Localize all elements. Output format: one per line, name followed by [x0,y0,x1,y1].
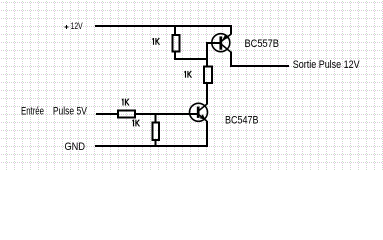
svg-text:BC557B: BC557B [245,38,280,50]
transistor Q1 base bar [219,36,222,49]
resistor R2 body [204,67,212,84]
transistor Q1 emitter diagonal [221,34,231,41]
transistor Q2 emitter arrow (NPN, points out) [200,114,206,120]
wire input Entree [96,113,118,115]
wire R3 bottom to GND [155,140,157,147]
wire Q1 emitter vertical (rail down) [230,26,232,35]
transistor Q2 collector diagonal [198,104,207,111]
transistor Q2 base bar [197,107,200,118]
plus sign of +12V label [65,25,69,29]
wire R4 to Q2 base [135,113,199,115]
wire R3 top [155,113,157,123]
wire Q1 collector vertical [230,52,232,67]
resistor R1 body [173,35,180,52]
transistor Q1 collector diagonal [221,44,231,52]
svg-text:GND: GND [65,141,86,153]
transistor Q2 emitter diagonal [199,115,207,122]
wire GND rail [95,145,208,147]
transistor Q1 emitter arrow (PNP, points to base) [223,34,229,39]
wire R1 bottom horizontal to junction [174,58,208,60]
label 1K of R3 [133,120,140,127]
label 1K of R4 [122,99,129,106]
wire output Sortie [230,65,289,67]
wire R1 bottom drop [174,52,176,59]
transistor Q1 BC557B circle [212,34,230,52]
node +12V supply rail wire [95,25,232,27]
wire junction vertical (base node down to R2) [206,42,208,67]
transistor Q2 BC547B circle [190,103,208,121]
label 1K of R1 [153,38,160,45]
wire base of Q1 BC557B [206,42,220,44]
resistor R4 body (horizontal 1K) [118,111,135,118]
wire R1 top (rail to R1) [174,26,176,35]
svg-text:BC547B: BC547B [225,114,259,126]
svg-text:Entrée: Entrée [21,106,44,118]
resistor R3 body [153,123,160,141]
svg-text:Sortie Pulse 12V: Sortie Pulse 12V [293,59,360,71]
label 1K of R2 [185,71,192,78]
svg-text:12V: 12V [71,21,83,32]
wire Q2 emitter vertical to GND [206,121,208,147]
svg-text:Pulse 5V: Pulse 5V [53,106,88,118]
wire R2 bottom to Q2 collector [206,83,208,104]
